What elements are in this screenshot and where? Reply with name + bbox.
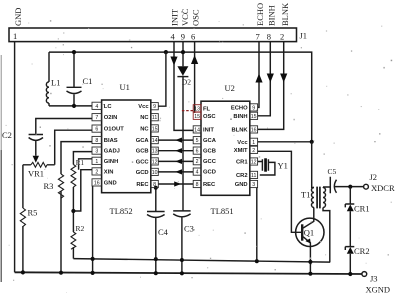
pin GCD 10 [151,168,159,175]
pin GCB 13 [151,147,159,154]
svg-text:Y1: Y1 [278,161,288,171]
pin CR1 12 [250,158,258,165]
svg-text:C4: C4 [158,227,169,237]
svg-text:13: 13 [152,149,158,155]
wire U2 GND drop [256,188,258,262]
svg-text:7: 7 [95,115,98,121]
svg-text:6: 6 [95,127,98,133]
capacitor C2 [29,119,92,156]
svg-text:CR1: CR1 [236,160,248,166]
svg-text:8: 8 [267,32,271,42]
svg-text:15: 15 [152,126,158,132]
arrow GCC left [175,159,182,164]
terminal J3 XGND [362,272,367,277]
arrow GCA left [175,138,182,143]
wire XIN [73,170,92,211]
svg-text:TL851: TL851 [211,206,234,216]
svg-text:Q1: Q1 [304,228,314,238]
arrow GCB left [175,148,182,153]
svg-text:8: 8 [153,182,156,188]
pin REC 8 [193,180,201,187]
pin LC 4 [92,102,102,109]
svg-text:6: 6 [191,32,195,42]
wire INIT vertical [174,42,193,131]
svg-text:NC: NC [140,126,149,132]
pin XIN 2 [92,168,102,175]
svg-text:J2: J2 [370,172,378,182]
arrow BLNK down [280,74,287,83]
resistor R5 [22,165,24,208]
pin NC 11 [151,114,159,121]
wire VCC rail [49,52,312,142]
pin BIAS 8 [92,136,102,143]
svg-text:15: 15 [251,114,257,120]
svg-text:8: 8 [196,182,199,188]
svg-text:R2: R2 [76,224,85,233]
wire LC to U1 [49,105,92,107]
svg-text:R3: R3 [44,181,54,191]
svg-text:O2IN: O2IN [104,115,118,121]
svg-text:FL: FL [203,106,211,112]
wire BLNK vertical [258,42,284,130]
pin GCA 14 [151,137,159,144]
svg-text:L1: L1 [51,78,60,88]
capacitor C1 [67,52,82,106]
diode CR1 [349,187,351,204]
svg-text:GCA: GCA [136,138,150,144]
scan edge artifact [0,55,2,150]
svg-text:GCC: GCC [203,159,217,165]
pin GND 3 [250,180,258,187]
IC U1 body [102,100,151,193]
U2 pin boxes and labels [193,104,257,188]
pin GINH 1 [92,157,102,164]
wire U1 VCC branch [158,52,166,106]
svg-text:BLNK: BLNK [231,127,248,133]
pin GCD 4 [193,168,201,175]
svg-text:REC: REC [136,182,149,188]
svg-text:ECHO: ECHO [231,105,248,111]
transistor Q1 [296,218,324,246]
inductor L1 [48,52,50,106]
svg-text:16: 16 [94,180,100,186]
svg-text:R5: R5 [28,208,38,218]
svg-text:T1: T1 [301,190,310,200]
svg-text:C5: C5 [328,167,337,176]
svg-text:14: 14 [194,127,200,133]
svg-text:12: 12 [152,159,158,165]
svg-text:C3: C3 [184,223,194,233]
pin NC 15 [151,125,159,132]
pin XMIT 2 [250,146,258,153]
pin FL 13 [193,105,201,112]
arrow BINH down [267,74,274,83]
svg-text:LC: LC [104,104,113,110]
svg-text:9: 9 [153,104,156,110]
svg-text:9: 9 [252,105,255,111]
crystal Y1 [258,159,275,175]
svg-text:Vcc: Vcc [237,140,248,146]
capacitor C3 [173,211,190,273]
svg-text:GCA: GCA [203,138,217,144]
svg-text:11: 11 [251,173,256,179]
svg-text:REC: REC [203,182,216,188]
svg-text:TL852: TL852 [110,206,133,216]
pin Vcc 1 [250,138,258,145]
arrow OSC up [191,55,198,64]
pin BLNK 16 [250,126,258,133]
svg-text:3: 3 [252,182,255,188]
svg-text:C1: C1 [83,76,93,86]
svg-text:GND: GND [13,8,23,26]
pin O2IN 7 [92,114,102,121]
svg-text:9: 9 [181,32,185,42]
svg-text:2: 2 [280,32,284,42]
wire GND left rail [14,42,16,273]
svg-text:XIN: XIN [104,169,114,175]
wire T1 bottom to ground line [323,208,330,263]
svg-text:GND: GND [104,180,117,186]
svg-text:CR2: CR2 [354,246,370,256]
svg-text:4: 4 [95,104,98,110]
resistor R2 [71,232,76,249]
svg-text:13: 13 [194,106,200,112]
svg-text:BIAS: BIAS [104,138,118,144]
svg-text:GND: GND [235,182,248,188]
svg-text:1: 1 [95,159,98,165]
svg-text:10: 10 [152,170,158,176]
wire O1OUT to VR1 [55,130,92,165]
terminal J2 XDCR [364,184,369,189]
svg-text:OSC: OSC [203,114,216,120]
svg-text:1: 1 [13,31,17,41]
svg-text:16: 16 [251,127,257,133]
svg-text:VR1: VR1 [28,169,44,179]
resistor R1 [73,152,92,165]
svg-text:BINH: BINH [267,5,277,26]
svg-text:4: 4 [196,170,199,176]
svg-text:2: 2 [95,169,98,175]
svg-text:11: 11 [152,115,157,121]
svg-text:J3: J3 [370,273,378,283]
arrow REC right [174,181,181,186]
pin REC 8 [151,180,159,187]
svg-text:CR2: CR2 [236,173,248,179]
arrow GCD left [175,169,182,174]
svg-text:U1: U1 [120,82,130,92]
pin GCB 6 [193,147,201,154]
wire VCC to T1 [312,142,314,188]
svg-text:J1: J1 [300,31,308,41]
wire XMIT to Q1 base [258,151,303,232]
svg-text:D2: D2 [182,77,191,86]
svg-text:2: 2 [196,159,199,165]
diode CR2 [345,247,354,250]
potentiometer VR1 [33,156,39,163]
svg-text:15: 15 [194,114,200,120]
svg-text:1: 1 [252,140,255,146]
svg-text:NC: NC [140,115,149,121]
gain wires GCA-GCD, REC between U1 and U2 [158,140,193,184]
svg-text:BINH: BINH [233,114,247,120]
wire U1 GND drop [92,186,94,273]
pin GCC 2 [193,158,201,165]
svg-text:VCC: VCC [180,8,190,26]
svg-text:INIT: INIT [203,127,214,133]
wire BINH vertical [258,42,271,116]
svg-text:GADJ: GADJ [104,149,120,155]
svg-text:ECHO: ECHO [255,3,265,26]
IC U2 body [201,101,250,195]
pin CR2 11 [250,171,258,178]
U1 pin boxes and labels [92,102,158,188]
svg-text:OSC: OSC [191,9,201,26]
pin O1OUT 6 [92,125,102,132]
svg-text:Vcc: Vcc [138,104,149,110]
capacitor C4 [147,188,165,274]
wire OSC vertical [194,42,196,113]
red dashed FL annotation [182,110,193,112]
svg-text:GCC: GCC [136,159,150,165]
wire ECHO vertical [258,42,259,108]
svg-text:12: 12 [251,160,257,166]
wire analog ground line A [73,259,330,263]
pin ECHO 9 [250,104,258,111]
pin GCA 5 [193,137,201,144]
svg-text:C2: C2 [2,130,12,140]
arrow INIT down [170,57,177,66]
svg-text:R1: R1 [76,159,85,167]
svg-text:XDCR: XDCR [371,183,395,193]
pin Vcc 9 [151,103,159,110]
wire bottom ground rail [15,272,362,274]
pin BINH 15 [250,112,258,119]
wire VCC drop from J1 [182,42,184,53]
svg-text:U2: U2 [225,83,235,93]
svg-text:3: 3 [95,149,98,155]
diode D2 [177,66,188,76]
pin INIT 14 [193,126,201,133]
svg-text:INIT: INIT [170,8,180,26]
wire GINH [79,159,92,170]
pin GND 16 [92,179,102,186]
pin GADJ 3 [92,147,102,154]
svg-text:7: 7 [256,32,260,42]
resistor R3 [61,142,92,174]
svg-text:XMIT: XMIT [234,148,248,154]
arrow ECHO up [255,74,262,83]
wire VDD line through D2 down to C3 [182,52,184,211]
svg-text:XGND: XGND [366,284,391,294]
wire T1 top to C5 [323,186,330,189]
capacitor C5 [330,177,363,194]
connector J1 [9,28,297,42]
pin GCC 12 [151,158,159,165]
svg-text:GCD: GCD [136,170,149,176]
svg-text:BLNK: BLNK [280,2,290,26]
transformer T1 [312,188,315,208]
svg-text:CR1: CR1 [354,204,370,214]
svg-text:GCB: GCB [203,149,216,155]
svg-text:GCB: GCB [136,149,149,155]
svg-text:O1OUT: O1OUT [104,127,124,133]
svg-text:GCD: GCD [203,170,216,176]
svg-text:GINH: GINH [104,159,119,165]
svg-text:8: 8 [95,138,98,144]
svg-text:5: 5 [196,138,199,144]
pin OSC 15 [193,112,201,119]
svg-text:2: 2 [252,148,255,154]
svg-text:14: 14 [152,138,158,144]
svg-text:6: 6 [196,149,199,155]
